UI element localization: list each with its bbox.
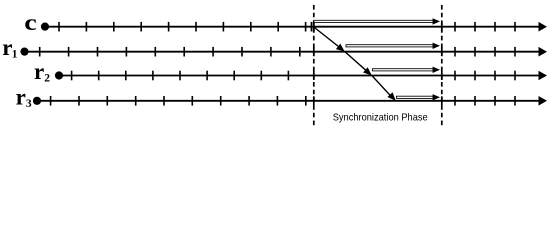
sync start tick on c (311, 22, 313, 32)
svg-text:r2: r2 (34, 59, 50, 84)
diagonal sync message r2 to r3 (372, 76, 396, 101)
dashed line left (313, 5, 315, 127)
timeline r3 (37, 96, 547, 106)
timeline r1 (25, 47, 548, 57)
svg-text:c: c (24, 10, 37, 35)
diagonal sync message r1 to r2 (345, 52, 372, 76)
timeline r2 (59, 71, 547, 81)
svg-text:r1: r1 (2, 35, 17, 60)
sync arrow on c (314, 18, 440, 24)
diagonal sync message c to r1 (314, 27, 345, 52)
sync arrow on r1 (346, 43, 440, 49)
dot r1 (20, 48, 28, 56)
dot c (41, 23, 49, 31)
dot r2 (55, 71, 63, 79)
timeline c (45, 22, 547, 32)
sync arrow on r2 (373, 67, 441, 73)
dot r3 (33, 97, 41, 105)
dashed line right (441, 5, 443, 127)
svg-text:r3: r3 (16, 85, 32, 110)
svg-text:Synchronization Phase: Synchronization Phase (333, 111, 428, 123)
sync arrow on r3 (397, 94, 441, 100)
